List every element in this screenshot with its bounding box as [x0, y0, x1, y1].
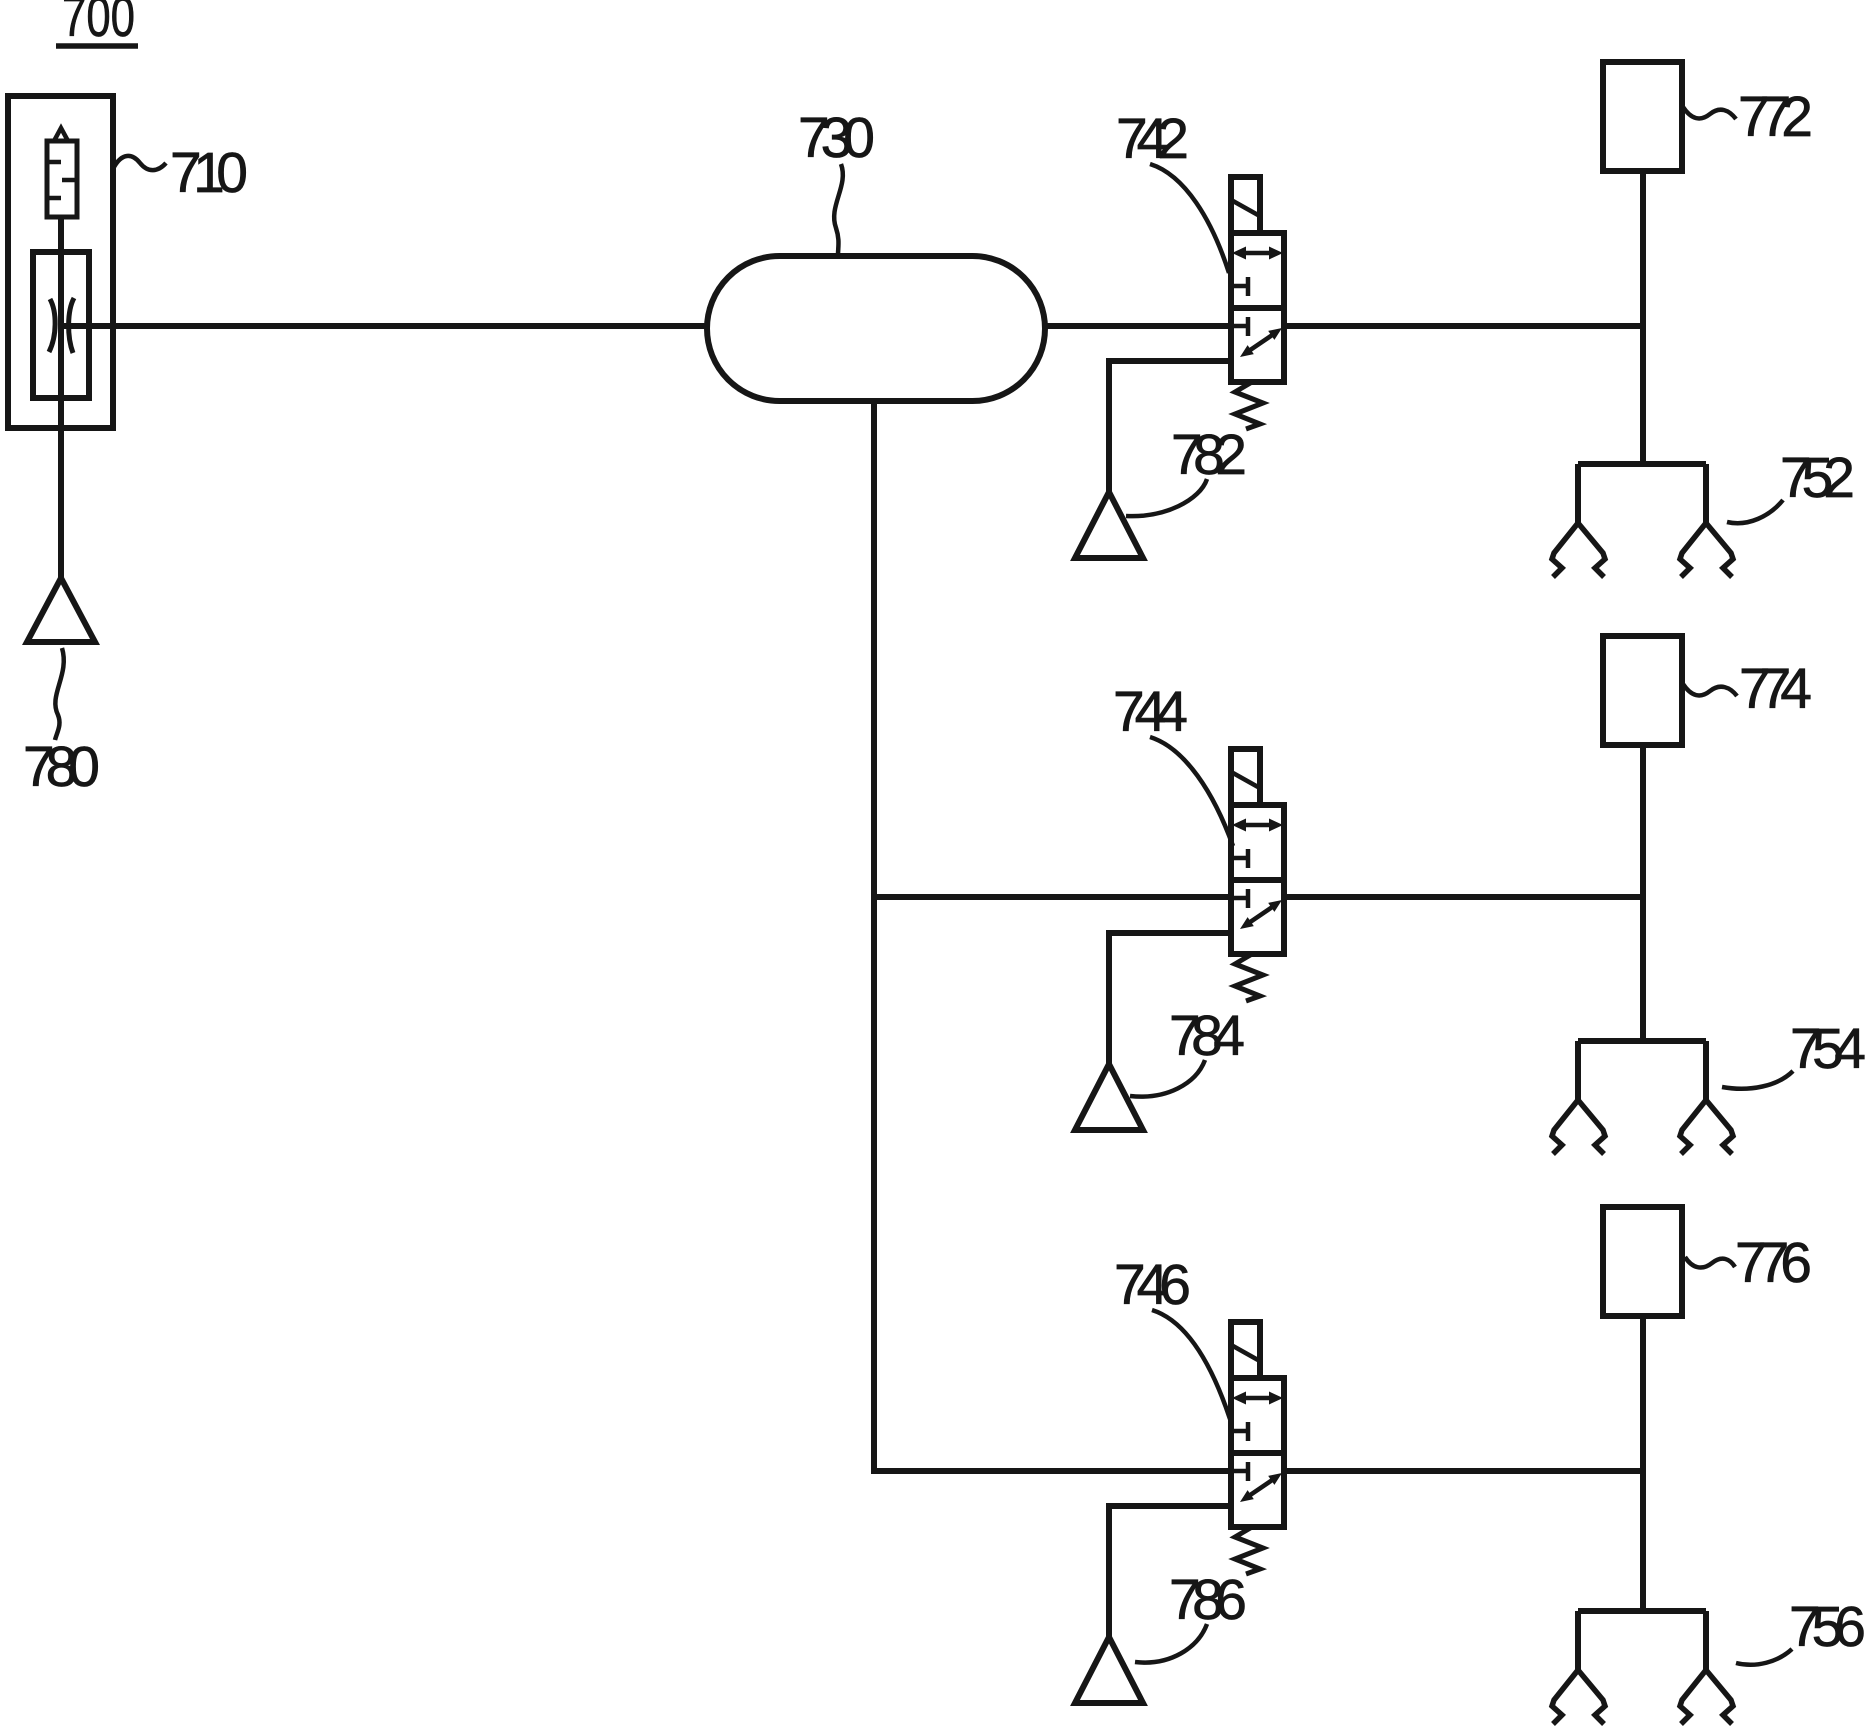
- leader 744: [1150, 737, 1233, 846]
- svg-text:774: 774: [1739, 657, 1812, 721]
- wire row 2 branch: [871, 894, 1642, 900]
- leader 774: [1683, 684, 1737, 696]
- tank 730: [707, 256, 1045, 401]
- leader 772: [1683, 107, 1736, 119]
- svg-text:756: 756: [1789, 1595, 1866, 1659]
- node label 700: [62, 0, 135, 49]
- leader 752: [1727, 500, 1783, 523]
- leader 710: [114, 156, 166, 170]
- leader 756: [1736, 1649, 1792, 1665]
- pump cartridge: [47, 141, 77, 217]
- gripper 752: [1552, 464, 1733, 577]
- wire trunk from tank + row 3: [874, 401, 1643, 1471]
- wire main line row 1: [63, 323, 1643, 329]
- svg-text:784: 784: [1169, 1004, 1245, 1068]
- svg-text:752: 752: [1780, 446, 1855, 510]
- venturi box: [33, 252, 89, 398]
- svg-text:742: 742: [1116, 107, 1189, 171]
- actuator 776: [1603, 1207, 1682, 1610]
- valve 746 with muffler 786: [1075, 1322, 1284, 1703]
- wire vertical supply line: [58, 217, 64, 578]
- valve 744 with muffler 784: [1075, 749, 1284, 1130]
- svg-text:782: 782: [1171, 423, 1247, 487]
- svg-text:730: 730: [798, 106, 875, 170]
- leader 776: [1685, 1257, 1735, 1268]
- svg-text:754: 754: [1790, 1017, 1866, 1081]
- leader 730: [834, 164, 843, 255]
- leader 746: [1152, 1310, 1230, 1419]
- svg-text:700: 700: [62, 0, 135, 49]
- gripper 756: [1552, 1611, 1733, 1724]
- actuator 772: [1603, 62, 1682, 465]
- svg-text:780: 780: [23, 735, 100, 799]
- actuator 774: [1603, 636, 1682, 1039]
- svg-text:710: 710: [170, 141, 248, 205]
- generator outer box 710: [8, 96, 113, 428]
- svg-text:786: 786: [1169, 1568, 1247, 1632]
- leader 754: [1722, 1071, 1793, 1089]
- gripper 754: [1552, 1041, 1733, 1154]
- svg-text:746: 746: [1114, 1253, 1191, 1317]
- venturi nozzle curves: [49, 299, 55, 352]
- svg-text:776: 776: [1735, 1231, 1812, 1295]
- leader 742: [1150, 164, 1229, 273]
- leader 782: [1126, 479, 1207, 516]
- leader 786: [1135, 1624, 1207, 1663]
- air inlet triangle 780: [27, 578, 95, 642]
- leader 780: [55, 648, 64, 740]
- svg-text:744: 744: [1113, 680, 1188, 744]
- valve 742 with muffler 782: [1075, 177, 1284, 558]
- svg-text:772: 772: [1738, 85, 1813, 149]
- leader 784: [1130, 1060, 1205, 1097]
